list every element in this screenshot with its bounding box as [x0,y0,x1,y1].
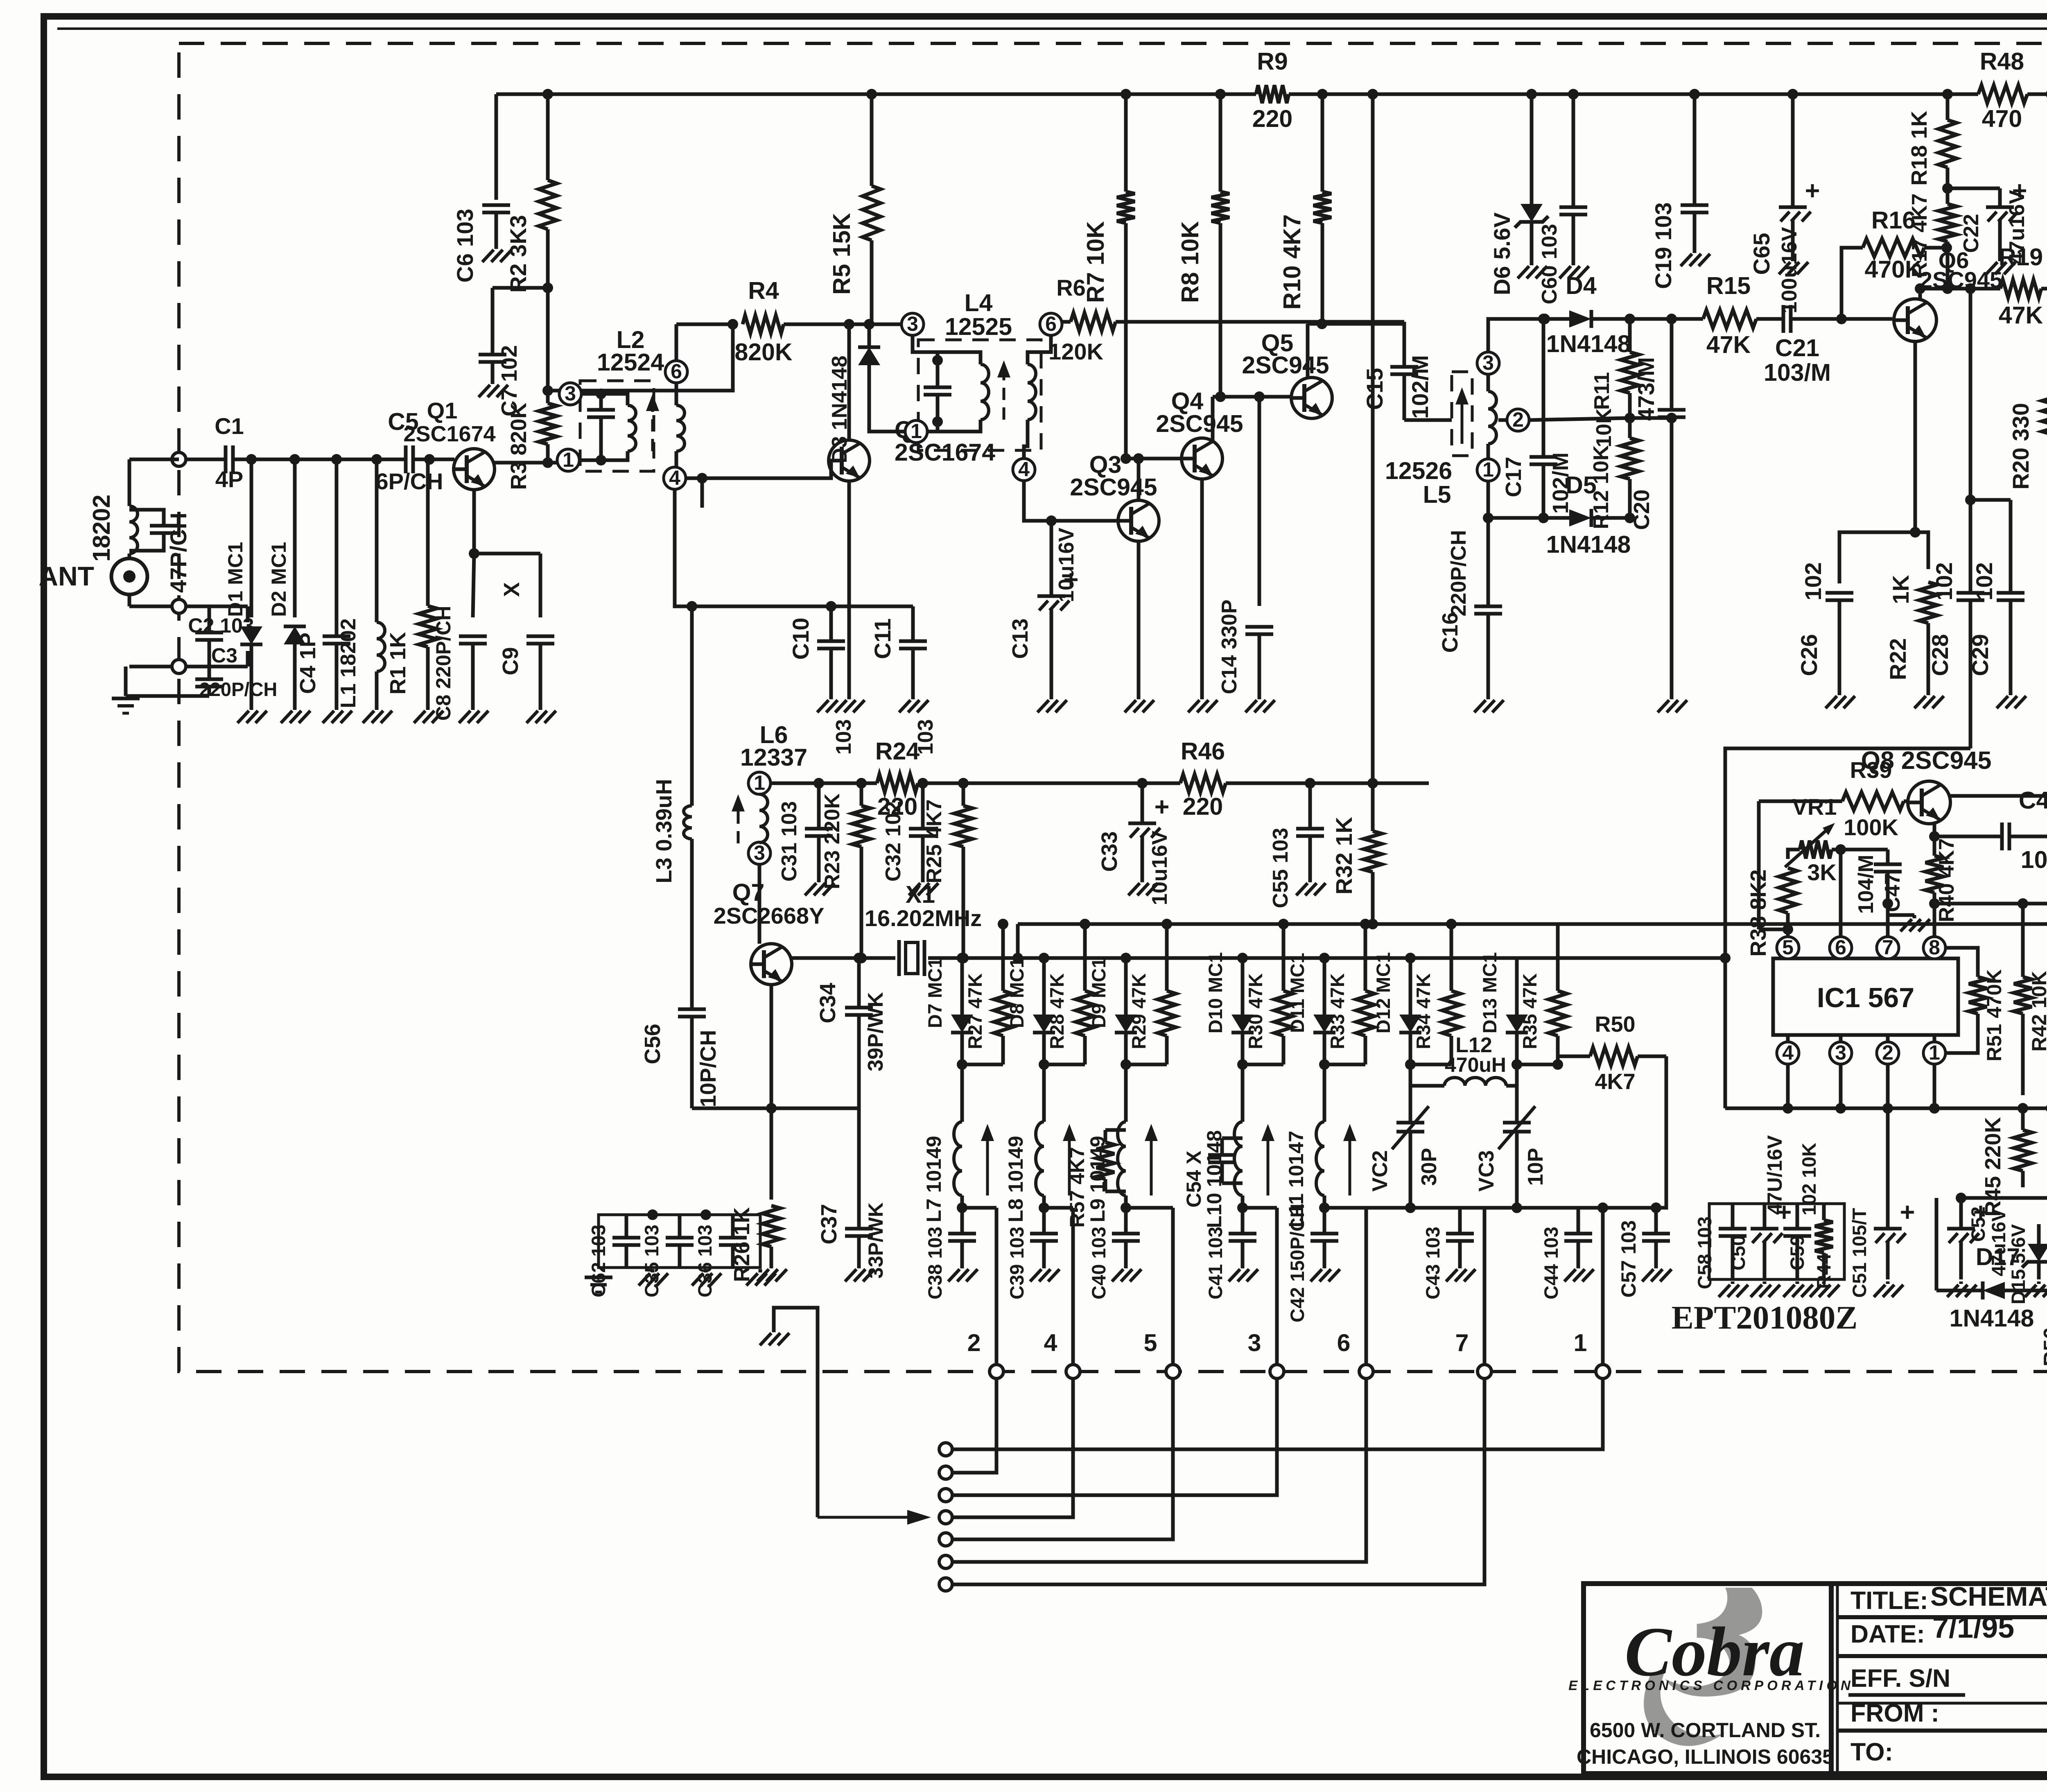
svg-text:2: 2 [967,1329,981,1356]
L4 secondary coil [1028,364,1036,420]
wire [493,286,548,290]
svg-text:C6 103: C6 103 [452,209,478,283]
junction [1965,495,1976,505]
ground [1241,1265,1245,1268]
wire [601,394,628,405]
wire [126,694,209,698]
wire [1969,289,1972,500]
junction [1237,1202,1248,1213]
ground [585,1276,612,1279]
svg-text:7: 7 [1455,1329,1469,1356]
capacitor C4 1P [323,635,350,638]
wire [913,335,938,352]
pin 1 [1923,1042,1945,1064]
wire Q2 emitter [847,481,851,696]
svg-text:D11 MC1: D11 MC1 [1286,953,1308,1033]
capacitor C65 100u16V [1779,206,1807,209]
ground [491,381,495,384]
svg-text:470: 470 [1982,105,2022,132]
pin 1 [905,420,927,443]
svg-text:220P/CH: 220P/CH [1447,530,1471,617]
transistor Q1 2SC1674 [454,449,495,490]
wire [936,352,940,358]
svg-text:L4: L4 [965,289,993,316]
junction [1039,1202,1049,1213]
inductor L10 10148 [1234,1122,1243,1195]
capacitor C33 10u16V [1128,822,1156,825]
wire Q8 emitter [1933,824,1936,836]
svg-text:1N4148: 1N4148 [1546,531,1631,558]
pin 6 [1040,313,1062,335]
ground [1913,915,1916,918]
svg-text:6: 6 [1835,936,1846,959]
junction [1666,314,1677,324]
wire input line [414,458,454,461]
wire [1222,1182,1243,1185]
wire [1630,416,1672,420]
wire [1603,1056,1666,1208]
junction [1046,515,1057,526]
junction [1651,1202,1661,1213]
junction [424,454,435,465]
capacitor C1 4P [224,445,228,473]
svg-text:4: 4 [1018,458,1030,481]
svg-text:R24: R24 [875,738,920,765]
junction [1039,1059,1049,1070]
resistor R1 1K [426,459,430,606]
capacitor C34 39P/WK [845,1006,873,1010]
wire Q2 collector [847,324,851,440]
svg-text:R28 47K: R28 47K [1046,973,1068,1049]
transistor Q7 2SC2668Y [751,944,792,985]
svg-text:2SC2668Y: 2SC2668Y [714,903,825,929]
svg-text:C2 103: C2 103 [188,614,254,637]
svg-text:C44 103: C44 103 [1540,1227,1562,1299]
svg-text:102/M: 102/M [1407,355,1433,419]
wire IC pin down [1786,1064,1790,1108]
pin 6 [1830,937,1852,959]
wire [1124,1208,1128,1224]
junction [1941,242,1952,253]
junction [1956,1193,1966,1203]
wire [548,461,568,465]
ground [829,696,833,699]
wire [1945,1014,1978,1053]
svg-text:6: 6 [1337,1329,1351,1356]
capacitor C47 104/M [1874,863,1902,866]
svg-text:47P/CH: 47P/CH [165,513,191,593]
svg-text:R25 4K7: R25 4K7 [922,799,946,883]
svg-text:R1 1K: R1 1K [386,632,410,694]
svg-text:2SC945: 2SC945 [1156,410,1243,437]
svg-text:R23 220K: R23 220K [820,793,844,889]
junction [1133,453,1144,464]
junction [1929,831,1940,842]
capacitor C13 10u16V [1037,594,1065,598]
capacitor C32 102 [909,827,937,831]
wire pair join [1044,1063,1085,1067]
wire [129,605,248,608]
svg-text:12526: 12526 [1385,457,1452,484]
svg-text:DATE:: DATE: [1850,1620,1925,1648]
wire Q6 emitter [1914,341,1917,532]
selector arrow [818,1516,913,1519]
svg-text:R9: R9 [1257,48,1288,75]
junction [1539,314,1550,324]
svg-text:C15: C15 [1362,368,1387,410]
resistor R28 47K [1083,924,1087,991]
svg-text:L7 10149: L7 10149 [922,1136,945,1222]
junction [1278,919,1289,929]
ground [1577,1265,1580,1268]
svg-text:C16: C16 [1438,612,1462,653]
junction [728,319,738,330]
wire L5 pin3 up [1488,319,1545,352]
wire input line [234,458,405,461]
ground [112,697,140,701]
wire [2037,1224,2041,1232]
junction [864,319,874,330]
wire Q3 collector [1137,459,1141,500]
junction [1237,953,1248,963]
tuning arrow [1150,1136,1153,1195]
svg-text:D9 MC1: D9 MC1 [1088,958,1109,1028]
resistor R30 47K [1282,924,1286,991]
svg-text:C42 150P/CH: C42 150P/CH [1286,1204,1308,1322]
wire [1888,913,1914,917]
wire [1241,1064,1245,1122]
ground [759,1269,762,1272]
capacitor C35 103 [666,1236,694,1240]
resistor R16 470K [1863,239,1924,257]
wire oscillator bus [963,956,1725,960]
svg-text:R40 4K7: R40 4K7 [1935,838,1959,922]
wire [936,424,940,432]
svg-text:820K: 820K [734,339,792,366]
capacitor C3 220P/CH [195,678,223,681]
junction [957,1059,967,1070]
svg-text:C54 X: C54 X [1182,1151,1205,1208]
capacitor C9 X [526,635,554,638]
pin 6 [665,361,687,383]
svg-text:R46: R46 [1181,738,1225,765]
terminal [1596,1365,1610,1378]
svg-text:102: 102 [1971,562,1997,600]
resistor R9 220 [1256,85,1289,103]
wire IC bottom bus [1725,1107,2047,1110]
wire [1105,1190,1126,1193]
wire [1936,1289,1969,1293]
capacitor L2 internal cap [587,408,615,412]
svg-text:C21: C21 [1775,334,1819,362]
resistor R19 47K [2000,280,2041,298]
svg-text:2SC945: 2SC945 [1242,352,1329,379]
junction [2018,1103,2028,1114]
svg-text:SCHEMATIC DIAGRAM, WX PCB: SCHEMATIC DIAGRAM, WX PCB [1930,1581,2047,1611]
resistor R24 220 [877,774,918,792]
wire [1961,1198,2047,1204]
wire [1016,924,1020,958]
svg-text:4P: 4P [215,466,244,492]
capacitor C15 102/M [1390,365,1418,369]
transistor Q2 2SC1674 [829,440,870,481]
resistor R32 1K [1371,783,1375,831]
junction [932,355,943,366]
wire [1517,1206,1603,1210]
wire [1759,928,1788,931]
svg-text:473/M: 473/M [1633,357,1659,421]
pin 1 [557,449,579,471]
svg-text:1: 1 [563,448,574,471]
terminal [1066,1365,1080,1378]
svg-text:C14 330P: C14 330P [1218,599,1241,694]
resistor R18 1K [1946,94,1950,120]
ground [1654,1265,1658,1268]
wire L2 pin6 up [675,324,678,360]
svg-text:4: 4 [1044,1329,1057,1356]
ground [1791,258,1795,261]
wire VR1 to pin6 [1839,850,1843,937]
wire [129,665,248,669]
ground [1959,1281,1963,1284]
svg-text:R15: R15 [1706,272,1751,299]
capacitor C60 103 [1559,206,1587,209]
svg-text:C50: C50 [1727,1235,1749,1270]
wire [1630,317,1703,321]
svg-text:47K: 47K [1706,331,1751,358]
wire [1222,1137,1243,1140]
resistor R15 47K [1703,310,1756,328]
capacitor C16 220P/CH [1474,605,1502,608]
capacitor C56 10P/CH [678,1008,706,1011]
resistor R46 220 [1180,774,1226,792]
junction [1121,89,1131,99]
wire [675,383,678,405]
svg-text:FROM :: FROM : [1850,1699,1939,1727]
svg-text:12524: 12524 [597,349,664,376]
junction [917,778,928,789]
resistor R42 10K [2021,904,2025,977]
ground [857,1265,861,1268]
junction [1882,1103,1893,1114]
ground [1458,1265,1462,1268]
svg-text:104/M: 104/M [1854,855,1878,914]
junction [1161,919,1172,929]
junction [1039,953,1049,963]
wire ant to L [128,554,131,558]
svg-text:30P: 30P [1417,1148,1441,1186]
wire [1933,1035,1936,1042]
title block frame [1584,1584,2047,1774]
wire WX row [2041,287,2047,291]
resistor R17 4K7 [1946,188,1950,204]
wire Q8 collector [1950,794,2047,798]
wire [581,392,601,396]
wire channel select [952,1378,1366,1562]
wire [1577,1208,1580,1224]
svg-text:R42 10K: R42 10K [2028,971,2047,1051]
wire to connector [1483,1208,1487,1363]
svg-text:1: 1 [1574,1329,1587,1356]
svg-text:C8 220P/CH: C8 220P/CH [432,606,455,721]
pin 5 [1777,937,1799,959]
wire mid rail [1226,782,1429,785]
wire [1458,1208,1462,1224]
wire L3 column [690,606,694,806]
svg-text:4: 4 [1782,1041,1794,1064]
diode D13 MC1 [1506,1015,1528,1033]
terminal [1270,1365,1284,1378]
terminal [1478,1365,1491,1378]
svg-text:C41 103: C41 103 [1204,1227,1226,1299]
svg-text:C11: C11 [870,618,895,659]
pin 7 [1877,937,1899,959]
capacitor C58 103 [1719,1227,1747,1231]
wire [692,605,913,608]
ground [1998,258,2002,261]
svg-text:C10: C10 [788,618,813,660]
svg-text:2SC1674: 2SC1674 [403,422,495,446]
junction [1552,1059,1563,1070]
svg-text:102: 102 [1800,562,1826,600]
svg-text:C48: C48 [2019,787,2047,814]
wire mid rail [770,782,877,785]
junction [2046,791,2047,801]
svg-text:D6 5.6V: D6 5.6V [1489,212,1515,295]
junction [596,455,606,466]
L6 coil [759,794,768,843]
junction [958,953,969,963]
junction [932,416,943,427]
capacitor C36 103 [719,1236,747,1240]
svg-text:3: 3 [1248,1329,1261,1356]
svg-text:C36 103: C36 103 [694,1225,716,1297]
svg-text:10K: 10K [1592,408,1616,447]
capacitor C6 103 [482,203,510,207]
diode D11 MC1 [1313,1015,1335,1033]
svg-text:ELECTRONICS CORPORATION: ELECTRONICS CORPORATION [1568,1678,1854,1693]
terminal [990,1365,1003,1378]
junction [1215,391,1226,402]
wire WX row [1920,287,2000,291]
svg-text:6P/CH: 6P/CH [376,468,443,494]
svg-text:R34 47K: R34 47K [1412,973,1434,1049]
svg-text:ANT: ANT [38,561,94,591]
wire [548,389,570,393]
junction [854,953,864,963]
svg-text:X: X [499,582,524,597]
wire [250,459,253,617]
resistor R38 8K2 [1779,868,1797,913]
wire [1410,1064,1444,1086]
resistor R11 10K [1628,319,1632,352]
pin 2 [1877,1042,1899,1064]
svg-text:C33: C33 [1097,831,1122,872]
svg-text:3: 3 [754,841,765,864]
svg-text:C1: C1 [215,413,244,439]
wire to Q5 base [1213,395,1291,399]
resistor R39 100K [1759,800,1842,803]
trimmer VR1 3K [1800,841,1832,859]
svg-text:L5: L5 [1423,481,1451,508]
resistor R33 47K [1364,924,1367,991]
junction [1783,1103,1793,1114]
wire feedback [581,324,733,391]
junction [1512,1059,1522,1070]
wire [1786,1035,1790,1042]
svg-text:C43 103: C43 103 [1422,1227,1444,1299]
wire channel select [952,1378,1277,1495]
ground [1927,692,1930,695]
wire L6 pin3 down [758,864,761,944]
ground [1693,250,1697,253]
inductor L11 10147 [1316,1122,1324,1195]
wire [129,510,164,514]
L2 tuning arrow [651,406,654,451]
pin 3 [559,383,581,405]
capacitor C52 47u16V [1947,1227,1975,1231]
svg-text:D12 MC1: D12 MC1 [1372,952,1394,1034]
svg-text:+: + [1155,793,1170,821]
svg-text:C4 1P: C4 1P [296,633,320,694]
capacitor C54 X [1208,1153,1236,1157]
capacitor L4 internal cap [924,386,951,389]
junction [1405,1202,1416,1213]
junction [1319,1059,1330,1070]
ground [960,1265,964,1268]
svg-text:C3: C3 [211,644,237,667]
junction [1666,413,1677,423]
svg-text:C57 103: C57 103 [1617,1220,1640,1297]
diode D8 MC1 [1033,1015,1055,1033]
wire [869,414,905,432]
junction [1526,89,1537,99]
wire pair join [962,1063,1003,1067]
svg-text:39P/WK: 39P/WK [864,992,888,1071]
svg-text:R38 8K2: R38 8K2 [1746,869,1771,956]
svg-text:R56: R56 [2040,1327,2047,1366]
pin 2 [1507,409,1529,431]
ground [1670,696,1674,699]
junction [1942,283,1953,294]
ground [1822,1281,1826,1284]
svg-text:C34: C34 [816,983,840,1023]
svg-text:103: 103 [832,719,856,755]
wire Q4 emitter [1200,479,1204,696]
transistor Q8 2SC945 [1908,781,1950,824]
diode D4 1N4148 [1569,310,1591,328]
resistor R20 330 [2042,393,2047,434]
junction [1215,89,1226,99]
svg-text:47U/16V: 47U/16V [1763,1135,1786,1215]
svg-text:1: 1 [911,420,922,443]
junction [1597,1202,1608,1213]
dashed circuit boundary [179,43,2047,1372]
wire D5 row [1488,516,1562,520]
zener diode D15 5.6V [2028,1244,2047,1262]
wire [601,451,628,460]
resistor R5 15K [870,94,874,186]
L5 coil [1488,391,1496,444]
resistor R35 47K [1556,924,1560,991]
svg-text:D10 MC1: D10 MC1 [1204,952,1226,1034]
junction [1012,953,1023,963]
svg-text:R11: R11 [1590,372,1614,410]
resistor R7 10K [1124,94,1128,192]
ground [1323,1265,1326,1268]
svg-text:EFF. S/N: EFF. S/N [1850,1664,1950,1692]
resistor R50 4K7 [1558,1055,1590,1058]
